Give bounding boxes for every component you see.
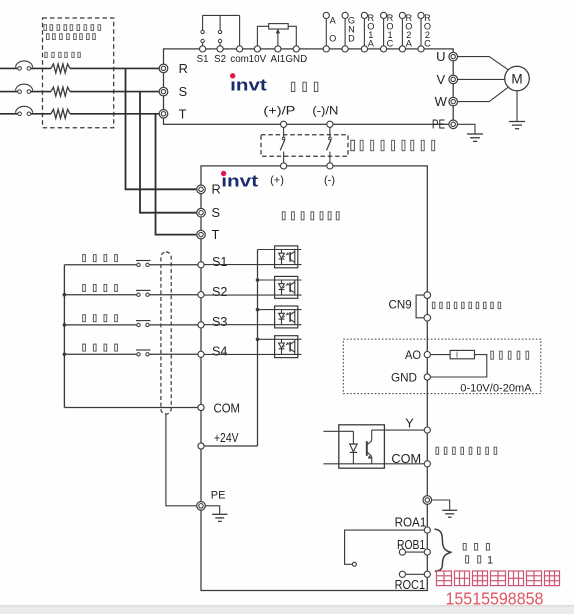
svg-text:+24V: +24V	[214, 431, 239, 445]
svg-text:C: C	[424, 38, 431, 48]
svg-text:AI1: AI1	[271, 54, 286, 65]
svg-text:S2: S2	[212, 285, 227, 299]
svg-text:A: A	[368, 38, 375, 48]
svg-text:ROB1: ROB1	[397, 538, 425, 552]
svg-text:C: C	[387, 38, 394, 48]
svg-text:S3: S3	[212, 315, 227, 329]
svg-text:T: T	[179, 106, 187, 121]
svg-text:M: M	[511, 71, 522, 86]
svg-text:T: T	[212, 227, 220, 242]
svg-text:ınvt: ınvt	[221, 172, 258, 191]
svg-text:com: com	[230, 54, 249, 65]
svg-text:R: R	[212, 182, 221, 197]
svg-text:ROA1: ROA1	[395, 516, 427, 530]
svg-text:O: O	[329, 34, 336, 44]
svg-text:S: S	[179, 84, 188, 99]
svg-text:R: R	[179, 61, 188, 76]
svg-text:10V: 10V	[249, 54, 267, 65]
svg-text:A: A	[330, 16, 337, 26]
svg-text:S4: S4	[212, 345, 227, 359]
svg-text:GND: GND	[391, 370, 417, 384]
svg-text:Y: Y	[405, 415, 414, 430]
svg-text:D: D	[348, 34, 355, 44]
svg-text:(-)/N: (-)/N	[312, 103, 338, 117]
svg-text:S2: S2	[214, 54, 226, 65]
svg-text:U: U	[436, 49, 445, 64]
svg-text:S: S	[212, 205, 221, 220]
svg-text:A: A	[406, 38, 413, 48]
svg-text:(+): (+)	[270, 174, 284, 186]
svg-text:0-10V/0-20mA: 0-10V/0-20mA	[460, 382, 532, 394]
svg-text:W: W	[435, 94, 448, 109]
svg-text:PE: PE	[432, 117, 445, 131]
svg-text:1: 1	[487, 554, 493, 566]
svg-text:S1: S1	[197, 54, 209, 65]
svg-text:CN9: CN9	[389, 298, 412, 312]
svg-text:AO: AO	[405, 348, 421, 362]
svg-text:GND: GND	[285, 54, 307, 65]
svg-text:(-): (-)	[324, 174, 335, 186]
svg-text:ınvt: ınvt	[230, 76, 267, 95]
svg-text:COM: COM	[391, 451, 421, 466]
svg-text:ROC1: ROC1	[395, 578, 426, 592]
svg-text:COM: COM	[214, 401, 241, 415]
svg-text:V: V	[436, 72, 445, 87]
svg-text:PE: PE	[211, 490, 226, 502]
svg-text:S1: S1	[212, 255, 227, 269]
svg-text:(+)/P: (+)/P	[263, 103, 295, 117]
